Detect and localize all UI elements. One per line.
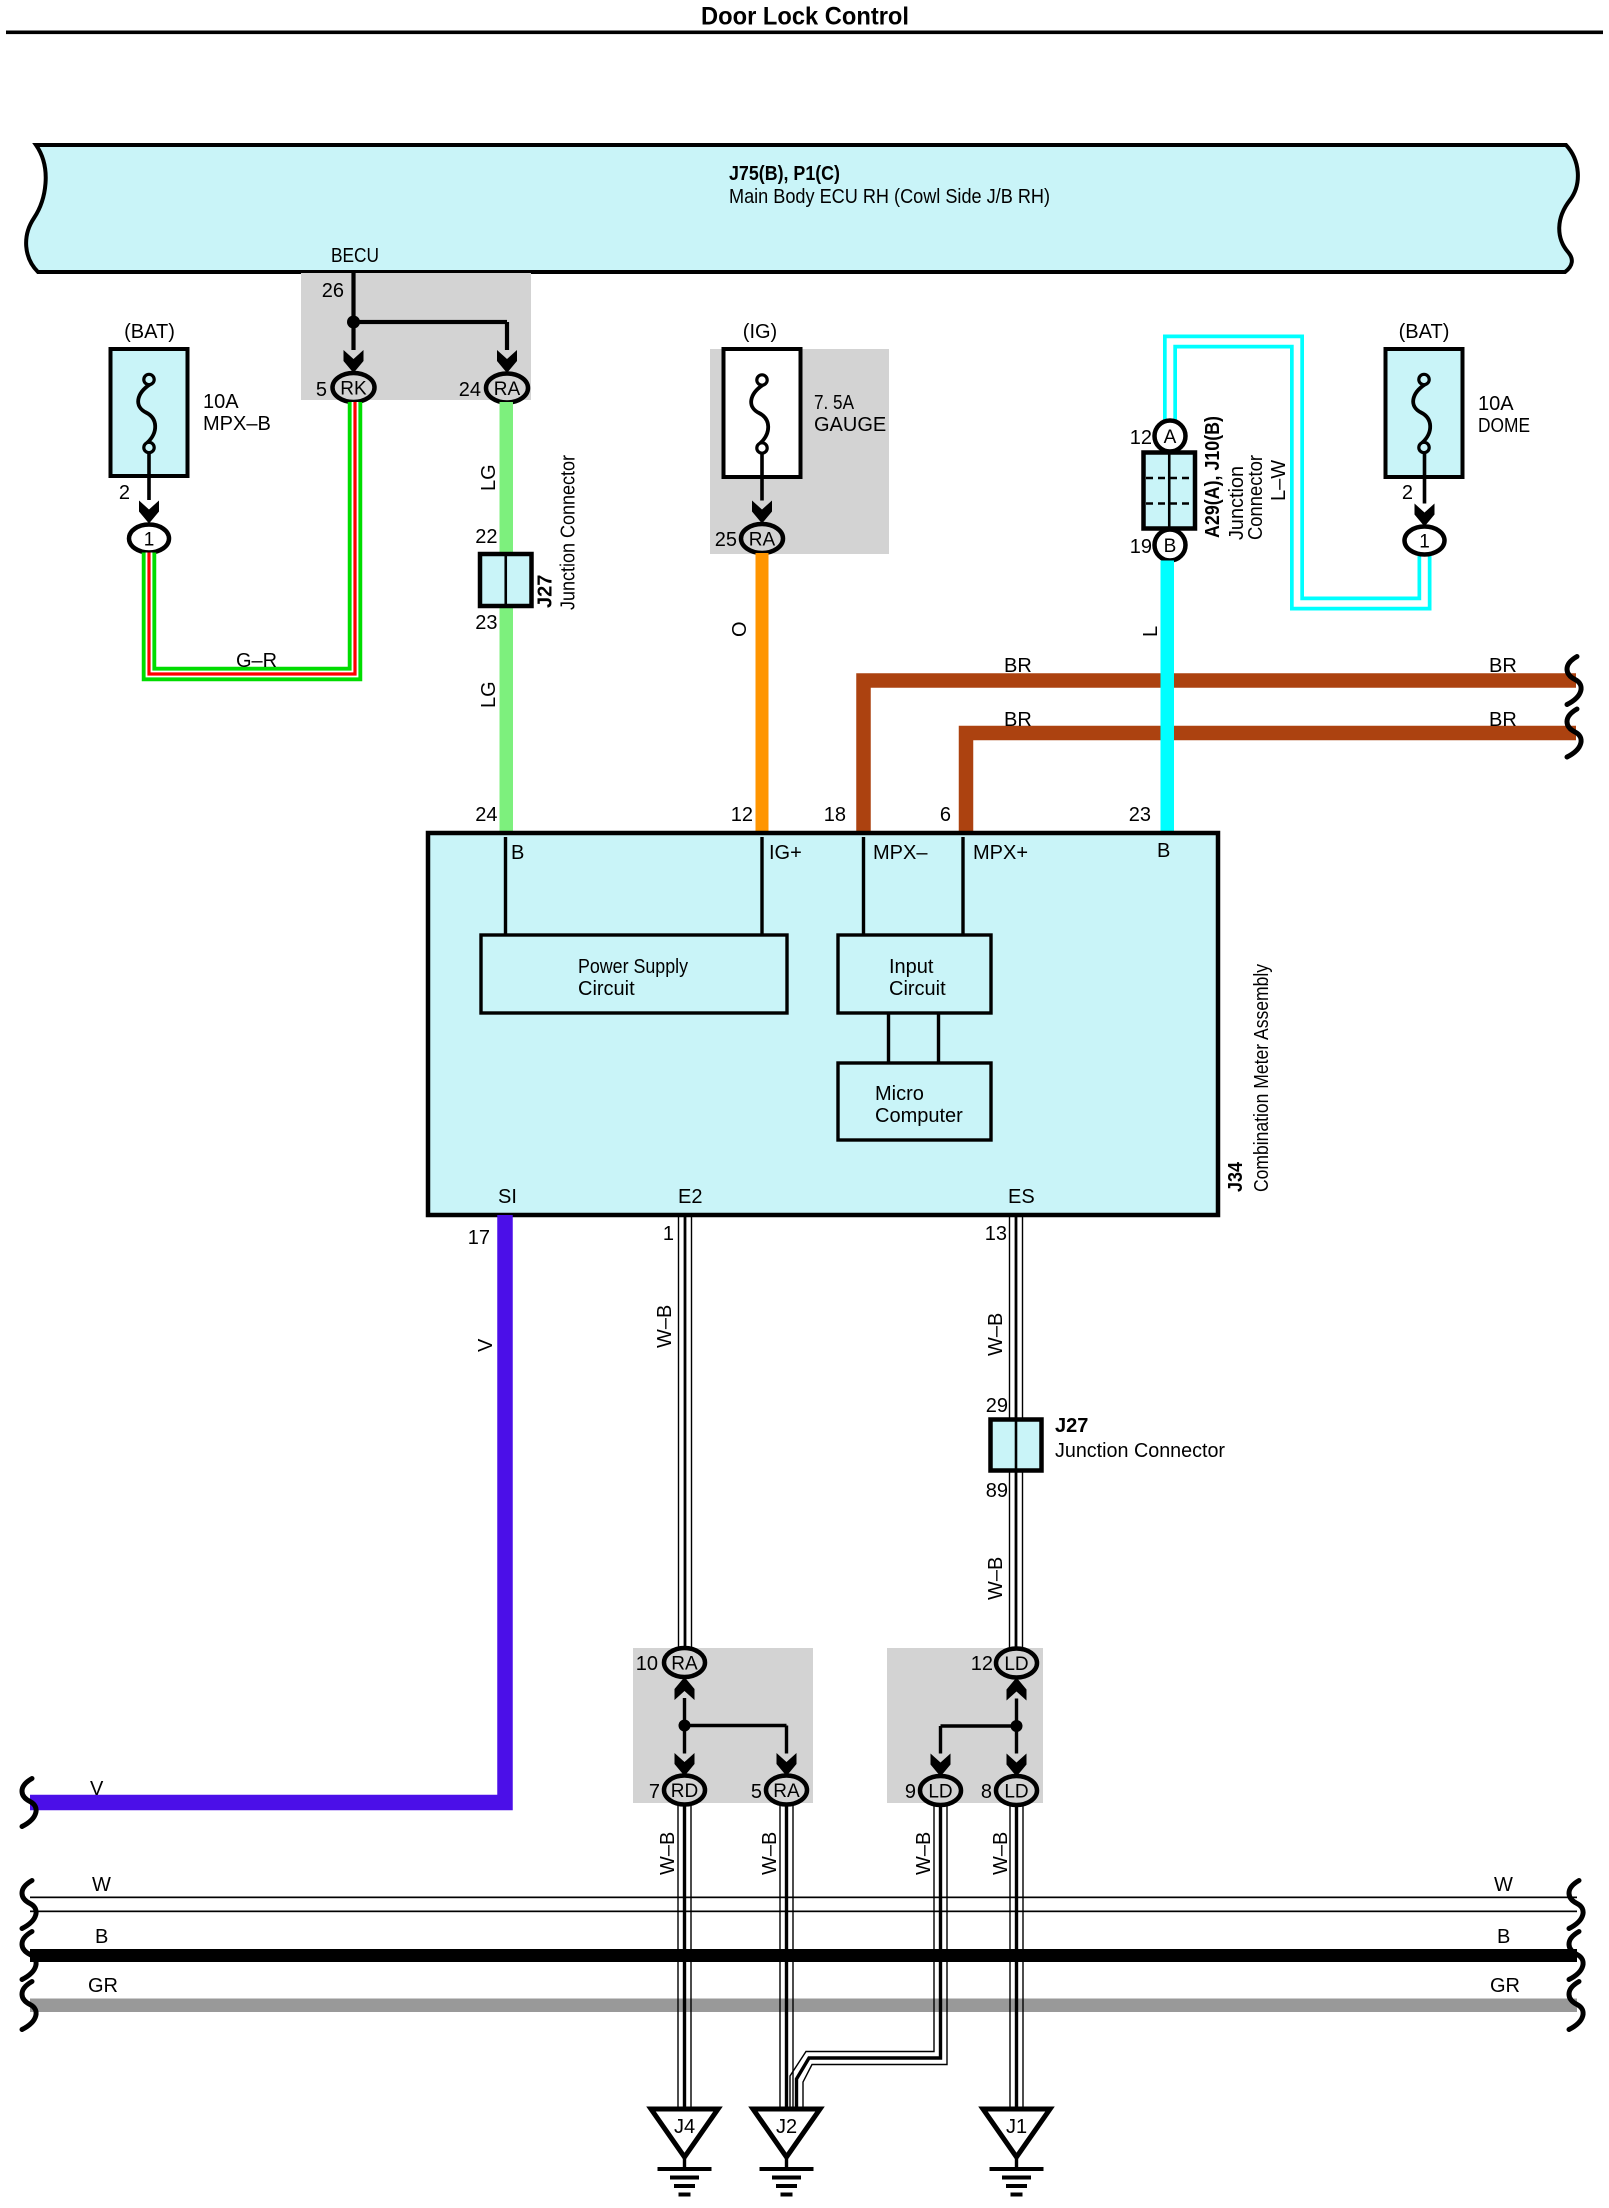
wire LD junction branch bbox=[941, 1699, 1023, 1754]
connector oval RD pin 7 bbox=[649, 1776, 705, 1805]
gray shield box RA/RD/RA bbox=[633, 1648, 813, 1803]
terminal arrow up into 10 RA bbox=[675, 1677, 695, 1700]
svg-text:RK: RK bbox=[340, 379, 367, 400]
wire W-B from meter pin ES 13 bbox=[985, 1215, 1023, 1649]
wire W-B from 9 LD (jog to J2) bbox=[790, 1805, 947, 2109]
terminal arrow down into 7 RD bbox=[675, 1753, 695, 1776]
svg-text:Power Supply: Power Supply bbox=[578, 956, 688, 978]
svg-text:1: 1 bbox=[1419, 532, 1430, 553]
svg-text:22: 22 bbox=[475, 526, 497, 548]
svg-text:J34: J34 bbox=[1225, 1161, 1247, 1192]
svg-text:J27: J27 bbox=[535, 575, 557, 608]
svg-text:ES: ES bbox=[1008, 1186, 1035, 1208]
svg-text:12: 12 bbox=[971, 1653, 993, 1675]
connector oval RA pin 10 bbox=[636, 1648, 705, 1677]
svg-text:Circuit: Circuit bbox=[578, 978, 635, 1000]
connector circle A pin 12 bbox=[1130, 421, 1186, 452]
svg-text:MPX+: MPX+ bbox=[973, 842, 1028, 864]
svg-text:Input: Input bbox=[889, 956, 934, 978]
svg-text:RA: RA bbox=[749, 530, 776, 551]
ground J2 bbox=[753, 2109, 820, 2195]
wire W-B from meter pin E2 1 bbox=[654, 1215, 692, 1649]
svg-text:(BAT): (BAT) bbox=[124, 321, 175, 343]
wire O orange (to meter pin 12) bbox=[729, 553, 769, 837]
svg-text:10A: 10A bbox=[203, 391, 239, 413]
svg-text:MPX–: MPX– bbox=[873, 842, 928, 864]
connector oval RK pin 5 bbox=[316, 373, 375, 402]
internal wire pin B to power supply bbox=[504, 837, 507, 935]
gray shield box under IG fuse bbox=[710, 349, 889, 554]
svg-text:LD: LD bbox=[928, 1782, 952, 1803]
svg-text:1: 1 bbox=[144, 530, 155, 551]
svg-text:2: 2 bbox=[119, 482, 130, 504]
wire BR #2 (meter pin 6) bbox=[940, 709, 1576, 837]
svg-text:7. 5A: 7. 5A bbox=[814, 392, 855, 414]
svg-text:W–B: W–B bbox=[759, 1832, 781, 1875]
svg-text:19: 19 bbox=[1130, 536, 1152, 558]
svg-text:B: B bbox=[1157, 840, 1170, 862]
svg-text:(BAT): (BAT) bbox=[1399, 321, 1450, 343]
junction connector A29(A) J10(B) bbox=[1144, 416, 1268, 540]
svg-text:Micro: Micro bbox=[875, 1083, 924, 1105]
svg-text:B: B bbox=[1497, 1926, 1510, 1948]
internal wire pin MPX- to input circuit bbox=[862, 837, 865, 935]
svg-text:J75(B), P1(C): J75(B), P1(C) bbox=[729, 163, 840, 185]
bus wire GR bbox=[30, 1975, 1577, 2012]
connector oval LD pin 8 bbox=[981, 1776, 1037, 1805]
svg-text:W–B: W–B bbox=[654, 1305, 676, 1348]
svg-text:BR: BR bbox=[1004, 709, 1032, 731]
svg-text:B: B bbox=[95, 1926, 108, 1948]
svg-text:10A: 10A bbox=[1478, 393, 1514, 415]
wire L-W (hollow cyan tube) bbox=[1170, 342, 1425, 604]
svg-text:J2: J2 bbox=[776, 2116, 797, 2138]
svg-text:GAUGE: GAUGE bbox=[814, 414, 886, 436]
break symbols bus left bbox=[22, 1881, 36, 2030]
connector oval RA pin 25 bbox=[715, 524, 783, 553]
svg-text:Main Body ECU RH (Cowl Side J/: Main Body ECU RH (Cowl Side J/B RH) bbox=[729, 186, 1050, 208]
svg-text:Circuit: Circuit bbox=[889, 978, 946, 1000]
wire RA junction branch bbox=[679, 1698, 787, 1754]
power supply circuit box bbox=[481, 935, 787, 1013]
connector oval 1 (right) bbox=[1405, 527, 1445, 555]
svg-text:LG: LG bbox=[478, 464, 500, 491]
svg-text:RD: RD bbox=[671, 1781, 698, 1802]
connector circle B pin 19 bbox=[1130, 530, 1186, 561]
svg-text:RA: RA bbox=[671, 1654, 698, 1675]
svg-text:25: 25 bbox=[715, 529, 737, 551]
svg-text:W–B: W–B bbox=[913, 1832, 935, 1875]
wire G-R bbox=[149, 402, 355, 674]
gray shield box LD bbox=[887, 1648, 1043, 1803]
svg-text:G–R: G–R bbox=[236, 650, 277, 672]
svg-text:W–B: W–B bbox=[657, 1832, 679, 1875]
svg-text:V: V bbox=[475, 1338, 497, 1352]
internal wire pin IG+ to power supply bbox=[760, 837, 763, 935]
svg-text:LD: LD bbox=[1004, 1654, 1028, 1675]
svg-text:12: 12 bbox=[1130, 427, 1152, 449]
svg-text:GR: GR bbox=[1490, 1975, 1520, 1997]
junction connector J27 (upper) bbox=[480, 455, 580, 610]
internal wires input circuit to micro computer bbox=[889, 1013, 939, 1063]
fuse 10A DOME bbox=[1386, 321, 1531, 477]
svg-text:J1: J1 bbox=[1006, 2116, 1027, 2138]
bus wire W bbox=[30, 1874, 1577, 1912]
fuse 10A MPX-B bbox=[111, 321, 271, 476]
svg-text:W–B: W–B bbox=[985, 1313, 1007, 1356]
svg-text:RA: RA bbox=[773, 1781, 800, 1802]
svg-text:L–W: L–W bbox=[1268, 460, 1290, 501]
svg-text:Junction Connector: Junction Connector bbox=[558, 455, 580, 610]
connector oval RA pin 5 bbox=[751, 1776, 807, 1805]
terminal arrow into oval 1 (DOME) bbox=[1415, 504, 1435, 527]
svg-text:17: 17 bbox=[468, 1227, 490, 1249]
wire V (meter pin SI 17) bbox=[30, 1215, 505, 1803]
svg-text:V: V bbox=[90, 1778, 104, 1800]
terminal arrow down into 9 LD bbox=[931, 1754, 951, 1777]
svg-text:Junction Connector: Junction Connector bbox=[1055, 1440, 1225, 1462]
terminal arrow into 25 RA bbox=[752, 501, 772, 524]
svg-text:W: W bbox=[92, 1874, 111, 1896]
break symbol BR #2 right bbox=[1567, 709, 1581, 757]
svg-text:BR: BR bbox=[1489, 709, 1517, 731]
svg-text:23: 23 bbox=[1129, 804, 1151, 826]
svg-text:(IG): (IG) bbox=[743, 321, 777, 343]
ground J1 bbox=[983, 2109, 1050, 2195]
svg-text:J4: J4 bbox=[674, 2116, 695, 2138]
wire W-B from 7 RD to ground J4 bbox=[657, 1805, 691, 2110]
svg-text:24: 24 bbox=[475, 804, 497, 826]
wire W-B from 5 RA to ground J2 bbox=[759, 1805, 793, 2110]
svg-text:29: 29 bbox=[986, 1395, 1008, 1417]
break symbol BR #1 right bbox=[1567, 657, 1581, 705]
svg-text:BR: BR bbox=[1489, 655, 1517, 677]
svg-text:LG: LG bbox=[478, 681, 500, 708]
svg-text:23: 23 bbox=[475, 612, 497, 634]
svg-text:9: 9 bbox=[905, 1781, 916, 1803]
svg-text:E2: E2 bbox=[678, 1186, 702, 1208]
break symbols bus right bbox=[1569, 1881, 1583, 2030]
svg-text:RA: RA bbox=[494, 379, 521, 400]
svg-text:13: 13 bbox=[985, 1223, 1007, 1245]
connector oval LD pin 9 bbox=[905, 1776, 961, 1805]
input circuit box bbox=[838, 935, 991, 1013]
svg-text:BECU: BECU bbox=[331, 245, 379, 267]
connector oval LD pin 12 bbox=[971, 1649, 1037, 1678]
svg-text:MPX–B: MPX–B bbox=[203, 413, 271, 435]
wire GAUGE fuse output bbox=[760, 453, 764, 501]
wire BR #1 (meter pin 18) bbox=[824, 655, 1576, 837]
svg-text:1: 1 bbox=[663, 1223, 674, 1245]
svg-text:Combination Meter Assembly: Combination Meter Assembly bbox=[1251, 964, 1273, 1192]
terminal arrow down into 5 RA bbox=[777, 1753, 797, 1776]
svg-text:SI: SI bbox=[498, 1186, 517, 1208]
svg-text:10: 10 bbox=[636, 1653, 658, 1675]
internal wire pin MPX+ to input circuit bbox=[961, 837, 964, 935]
svg-text:W: W bbox=[1494, 1874, 1513, 1896]
svg-text:7: 7 bbox=[649, 1781, 660, 1803]
terminal arrow into RK bbox=[344, 350, 364, 373]
svg-text:8: 8 bbox=[981, 1781, 992, 1803]
svg-text:Connector: Connector bbox=[1245, 455, 1267, 540]
svg-text:DOME: DOME bbox=[1478, 415, 1530, 437]
svg-text:B: B bbox=[511, 842, 524, 864]
connector oval RA pin 24 bbox=[459, 374, 528, 403]
micro computer box bbox=[838, 1063, 991, 1140]
svg-text:89: 89 bbox=[986, 1480, 1008, 1502]
svg-text:O: O bbox=[729, 621, 751, 637]
svg-text:5: 5 bbox=[316, 379, 327, 401]
svg-text:W–B: W–B bbox=[990, 1832, 1012, 1875]
title Door Lock Control bbox=[6, 3, 1603, 35]
svg-text:J27: J27 bbox=[1055, 1415, 1088, 1437]
connector oval 1 (left) bbox=[129, 525, 169, 553]
svg-text:IG+: IG+ bbox=[769, 842, 802, 864]
svg-text:Door Lock Control: Door Lock Control bbox=[701, 3, 909, 31]
svg-text:GR: GR bbox=[88, 1975, 118, 1997]
svg-text:B: B bbox=[1164, 536, 1177, 557]
break symbol V left bbox=[22, 1779, 36, 1827]
svg-text:BR: BR bbox=[1004, 655, 1032, 677]
svg-text:18: 18 bbox=[824, 804, 846, 826]
terminal arrow into oval 1 (MPX-B) bbox=[139, 501, 159, 524]
junction connector J27 (lower) bbox=[986, 1395, 1226, 1502]
svg-text:5: 5 bbox=[751, 1781, 762, 1803]
wire DOME fuse pin 2 bbox=[1402, 453, 1426, 505]
wire W-B from 8 LD to ground J1 bbox=[990, 1805, 1023, 2109]
wire LG (pin 24 RA to meter pin 24) bbox=[475, 402, 513, 837]
combination meter assembly J34 bbox=[428, 833, 1273, 1215]
svg-text:12: 12 bbox=[731, 804, 753, 826]
svg-text:A: A bbox=[1164, 427, 1177, 448]
ECU bar J75(B) P1(C) Main Body ECU RH bbox=[26, 145, 1578, 272]
svg-text:A29(A), J10(B): A29(A), J10(B) bbox=[1202, 416, 1224, 538]
ground J4 bbox=[651, 2109, 718, 2195]
terminal arrow up into 12 LD bbox=[1007, 1678, 1027, 1701]
svg-text:26: 26 bbox=[322, 280, 344, 302]
terminal arrow into RA bbox=[497, 350, 517, 373]
svg-text:Computer: Computer bbox=[875, 1105, 963, 1127]
terminal arrow down into 8 LD bbox=[1007, 1754, 1027, 1777]
bus wire B bbox=[30, 1926, 1577, 1962]
fuse 7.5A GAUGE bbox=[724, 321, 887, 477]
svg-text:LD: LD bbox=[1004, 1782, 1028, 1803]
svg-text:W–B: W–B bbox=[985, 1557, 1007, 1600]
svg-text:24: 24 bbox=[459, 379, 481, 401]
gray shield box under BECU bbox=[301, 273, 531, 400]
wire L cyan (circle B to meter pin 23) bbox=[1129, 561, 1174, 838]
wire BECU pin 26 bbox=[322, 272, 509, 350]
wire fuse MPX-B pin 2 bbox=[119, 453, 151, 505]
svg-text:2: 2 bbox=[1402, 482, 1413, 504]
svg-text:L: L bbox=[1140, 626, 1162, 637]
svg-text:6: 6 bbox=[940, 804, 951, 826]
